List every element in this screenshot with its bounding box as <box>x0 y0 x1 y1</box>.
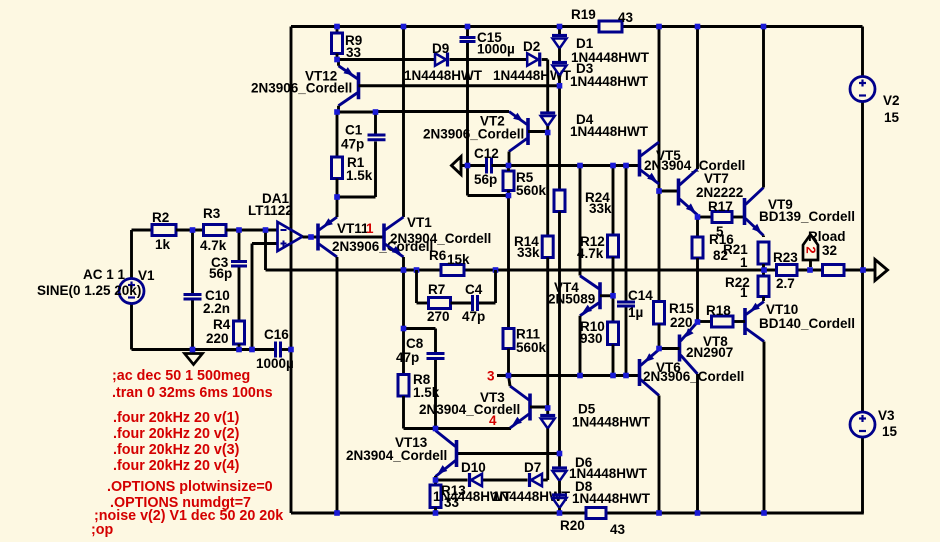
resistor R14 <box>542 236 553 258</box>
wire VT3 collector to bus3 <box>509 376 511 387</box>
svg-text:C12: C12 <box>474 146 499 161</box>
svg-text:;noise v(2) V1 dec 50 20 20k: ;noise v(2) V1 dec 50 20 20k <box>94 508 283 524</box>
wire D9 D2 row <box>337 58 436 61</box>
svg-text:.four 20kHz 20 v(2): .four 20kHz 20 v(2) <box>113 426 240 442</box>
svg-text:Rload: Rload <box>808 229 846 244</box>
wire bus net3 <box>497 374 640 377</box>
svg-text:R19: R19 <box>571 7 596 22</box>
capacitor C3 / resistor R4 branch <box>238 230 241 260</box>
svg-text:560k: 560k <box>516 340 547 355</box>
svg-text:4.7k: 4.7k <box>200 238 227 253</box>
svg-text:33k: 33k <box>517 245 540 260</box>
svg-text:1N4448HWT: 1N4448HWT <box>572 491 651 506</box>
capacitor C10 <box>191 230 194 293</box>
wire VT10 collector down <box>763 342 766 514</box>
svg-text:.OPTIONS plotwinsize=0: .OPTIONS plotwinsize=0 <box>107 479 273 495</box>
svg-text:BD139_Cordell: BD139_Cordell <box>759 209 855 224</box>
diode D3 <box>552 61 567 64</box>
wire R5 node <box>468 194 509 197</box>
capacitor C12 plates <box>485 158 488 174</box>
op-amp U1 DA1 LT1122 <box>278 222 303 251</box>
resistor R20 <box>586 508 606 519</box>
wire R1 leads <box>336 112 339 157</box>
transistor VT2 2N3906 <box>526 118 530 145</box>
wire output bus <box>266 269 442 272</box>
svg-text:2N3904_Cordell: 2N3904_Cordell <box>346 448 447 463</box>
svg-text:1000µ: 1000µ <box>256 356 294 371</box>
resistor R3 <box>204 225 227 236</box>
wire VT2 collector down <box>508 152 511 166</box>
resistor R9 <box>332 33 343 54</box>
wire VT3 base <box>530 406 548 409</box>
capacitor C15 <box>466 27 469 37</box>
resistor R8 <box>398 375 409 397</box>
voltage source V3 <box>850 412 875 437</box>
wire D5 chain <box>546 408 549 415</box>
svg-text:VT11: VT11 <box>337 221 369 236</box>
resistor R5 <box>503 171 514 191</box>
svg-text:1µ: 1µ <box>628 305 643 320</box>
svg-text:1: 1 <box>366 221 374 236</box>
resistor R24 <box>554 190 565 212</box>
wire VT6 collector down <box>658 396 661 514</box>
svg-text:2.2n: 2.2n <box>203 301 230 316</box>
resistor Rload <box>823 265 845 276</box>
wire R12 column <box>612 166 615 236</box>
svg-text:1.5k: 1.5k <box>346 168 373 183</box>
svg-text:C16: C16 <box>264 327 289 342</box>
transistor VT3 2N3904 <box>528 394 532 421</box>
svg-text:220: 220 <box>670 315 693 330</box>
svg-text:270: 270 <box>427 309 450 324</box>
svg-text:R23: R23 <box>773 250 798 265</box>
transistor VT5 2N3904 <box>638 150 642 177</box>
wire VT6 emitter join <box>658 349 661 350</box>
svg-text:.tran 0 32ms 6ms 100ns: .tran 0 32ms 6ms 100ns <box>112 385 273 401</box>
svg-text:2.7: 2.7 <box>776 276 795 291</box>
resistor R2 <box>152 225 176 236</box>
svg-text:15: 15 <box>882 424 898 439</box>
diode D9 <box>446 53 449 67</box>
wire C14 column <box>625 166 628 301</box>
wire VT8 base <box>659 347 680 350</box>
svg-text:43: 43 <box>610 522 626 537</box>
wire op-amp minus node jog <box>264 230 267 270</box>
wire VT1 collector to rail <box>402 27 405 218</box>
svg-text:33k: 33k <box>589 201 612 216</box>
wire R22 leads <box>762 270 765 276</box>
svg-text:D10: D10 <box>461 460 486 475</box>
svg-text:;ac dec 50 1 500meg: ;ac dec 50 1 500meg <box>112 368 250 384</box>
input port arrow <box>452 157 462 175</box>
svg-text:56p: 56p <box>474 172 497 187</box>
wire VT12 base <box>359 84 560 87</box>
svg-text:R17: R17 <box>708 199 733 214</box>
resistor R12 <box>608 235 619 257</box>
wire R18 to VT10 base <box>698 320 712 323</box>
wire VT12 collector node <box>337 111 376 114</box>
wire VT2 base <box>528 130 548 133</box>
resistor R16 <box>692 237 703 258</box>
svg-text:1000µ: 1000µ <box>477 42 515 57</box>
svg-text:15k: 15k <box>447 252 470 267</box>
capacitor C3 plates <box>231 260 247 263</box>
svg-text:32: 32 <box>822 243 837 258</box>
ground <box>192 350 195 354</box>
wire R9 top lead <box>336 27 339 34</box>
resistor R23 <box>777 265 798 276</box>
svg-text:;op: ;op <box>91 522 113 538</box>
svg-text:33: 33 <box>346 45 362 60</box>
wire VT5 collector column <box>658 27 661 192</box>
wire D2 to D4 <box>546 60 549 113</box>
svg-text:4: 4 <box>489 413 497 428</box>
svg-text:47p: 47p <box>341 137 364 152</box>
wire bottom negative rail <box>291 512 586 515</box>
wire VT2 emitter to VT12 collector <box>376 110 510 113</box>
resistor R19 <box>599 21 622 32</box>
wire op-amp plus input <box>252 242 278 245</box>
svg-text:R18: R18 <box>706 303 731 318</box>
svg-text:AC 1 1: AC 1 1 <box>83 267 126 282</box>
svg-text:1: 1 <box>740 285 748 300</box>
svg-text:2N3904_Cordell: 2N3904_Cordell <box>419 402 520 417</box>
svg-text:V3: V3 <box>878 408 895 423</box>
capacitor C1 plates <box>368 134 386 137</box>
wire R10 leads <box>612 296 615 322</box>
wire VT1 emitter down <box>402 257 405 329</box>
svg-text:1N4448HWT: 1N4448HWT <box>570 74 649 89</box>
transistor VT4 2N5089 <box>598 282 602 309</box>
svg-text:R20: R20 <box>560 518 585 533</box>
svg-text:VT7: VT7 <box>704 171 729 186</box>
svg-text:R3: R3 <box>203 206 221 221</box>
resistor R21 <box>758 242 769 264</box>
resistor R11 <box>503 329 514 349</box>
svg-text:C1: C1 <box>345 123 363 138</box>
svg-text:VT10: VT10 <box>766 302 798 317</box>
resistor R17 <box>712 212 732 223</box>
wire D7 D10 row <box>436 479 468 482</box>
svg-text:1N4448HWT: 1N4448HWT <box>404 68 483 83</box>
transistor VT11 2N3906 <box>316 224 320 251</box>
output port arrow <box>875 260 888 281</box>
svg-text:D2: D2 <box>523 39 540 54</box>
wire D1 D3 chain top <box>558 27 561 35</box>
svg-text:BD140_Cordell: BD140_Cordell <box>759 316 855 331</box>
diode D6 <box>552 466 567 469</box>
svg-text:560k: 560k <box>516 183 547 198</box>
capacitor C1 branch <box>374 112 377 134</box>
wire R2-R3 <box>176 229 204 232</box>
wire input loop left <box>132 229 153 232</box>
diode D8 <box>552 493 567 496</box>
wire bus165 <box>492 164 640 167</box>
svg-text:1: 1 <box>740 255 748 270</box>
wire R15 column <box>658 191 661 302</box>
transistor VT9 BD139 <box>743 198 747 225</box>
wire left frame vertical <box>290 27 293 514</box>
diode D4 <box>540 111 555 114</box>
svg-text:43: 43 <box>618 10 634 25</box>
svg-text:2N3906_Cordell: 2N3906_Cordell <box>643 369 744 384</box>
svg-text:V1: V1 <box>138 268 155 283</box>
wire VT5 emitter to VT7 base <box>659 190 679 193</box>
wire VT8 collector down <box>696 374 699 513</box>
diode D7 <box>528 473 531 487</box>
wire top positive rail <box>291 25 599 28</box>
svg-text:C14: C14 <box>628 288 653 303</box>
svg-text:2N2222: 2N2222 <box>696 185 743 200</box>
resistor R18 <box>712 316 734 327</box>
svg-text:C8: C8 <box>406 336 424 351</box>
transistor VT1 2N3904 <box>382 224 386 251</box>
capacitor C10 plates <box>184 293 202 296</box>
svg-text:VT1: VT1 <box>407 215 432 230</box>
wire R11 column <box>507 196 510 329</box>
transistor VT13 2N3904 <box>455 440 459 467</box>
svg-text:D7: D7 <box>524 460 541 475</box>
svg-text:47p: 47p <box>396 350 419 365</box>
diode D10 <box>468 473 471 487</box>
wire R8 leads <box>402 329 405 375</box>
wire VT11 collector down <box>336 257 339 513</box>
svg-text:1N4448HWT: 1N4448HWT <box>572 415 651 430</box>
svg-text:C4: C4 <box>465 282 483 297</box>
diode D5 <box>540 414 555 417</box>
svg-text:2N3904_Cordell: 2N3904_Cordell <box>390 231 491 246</box>
svg-text:2: 2 <box>804 246 819 253</box>
svg-text:.four 20kHz 20 v(4): .four 20kHz 20 v(4) <box>113 458 240 474</box>
svg-text:1N4448HWT: 1N4448HWT <box>570 124 649 139</box>
resistor R22 <box>758 276 769 297</box>
resistor R6 <box>441 265 464 276</box>
svg-text:R2: R2 <box>152 210 169 225</box>
wire VT4 base <box>600 294 613 297</box>
wire D4 to VT2 base node <box>546 126 549 133</box>
svg-text:D1: D1 <box>576 36 594 51</box>
svg-text:LT1122: LT1122 <box>248 203 293 218</box>
resistor R10 <box>608 322 619 345</box>
transistor VT12 2N3906 <box>357 72 361 99</box>
wire D1D3 column down <box>558 86 561 190</box>
resistor R7 <box>429 298 451 309</box>
svg-text:.four 20kHz 20 v(1): .four 20kHz 20 v(1) <box>113 410 240 426</box>
wire right vertical to V2/V3 <box>861 27 864 78</box>
wire VT13 emitter node <box>434 476 437 485</box>
svg-text:SINE(0 1.25 20k): SINE(0 1.25 20k) <box>37 283 141 298</box>
transistor VT6 2N3906 <box>638 359 642 386</box>
svg-text:15: 15 <box>884 110 900 125</box>
wire D6 D8 chain <box>558 454 561 468</box>
voltage source V2 <box>850 77 875 102</box>
wire VT13 base <box>457 452 560 455</box>
svg-text:3: 3 <box>487 369 495 384</box>
svg-text:1.5k: 1.5k <box>413 385 440 400</box>
junction dots <box>334 24 340 30</box>
resistor R13 <box>430 485 441 508</box>
capacitor C14 plates <box>617 301 635 304</box>
capacitor C4 plates <box>471 295 474 311</box>
voltage source V1 <box>119 279 144 304</box>
svg-text:R4: R4 <box>213 317 231 332</box>
svg-text:56p: 56p <box>209 266 232 281</box>
svg-text:.four 20kHz 20 v(3): .four 20kHz 20 v(3) <box>113 442 240 458</box>
wire op-amp output <box>303 236 385 239</box>
svg-text:1k: 1k <box>155 237 171 252</box>
diode D2 <box>538 53 541 67</box>
transistor VT8 2N2907 <box>678 335 682 362</box>
svg-text:33: 33 <box>444 495 460 510</box>
diode D1 <box>552 34 567 37</box>
svg-text:930: 930 <box>580 331 603 346</box>
wire R16 column <box>696 217 699 237</box>
svg-text:D9: D9 <box>432 41 449 56</box>
capacitor C16 plates <box>274 342 277 358</box>
wire R24 down to VT13 base node <box>558 212 561 454</box>
wire R14 column <box>546 133 549 237</box>
resistor R4 <box>234 321 245 344</box>
wire port to bus <box>461 164 487 167</box>
resistor R1 <box>332 157 343 179</box>
transistor VT7 2N2222 <box>677 179 681 206</box>
transistor VT10 BD140 <box>743 308 747 335</box>
svg-text:2N2907: 2N2907 <box>686 345 733 360</box>
wire R17 to VT9 <box>698 216 713 219</box>
wire R3 to op-amp <box>226 229 278 232</box>
svg-text:2N3906_Cordell: 2N3906_Cordell <box>423 127 524 142</box>
net flag 2 output port <box>803 235 818 261</box>
svg-text:2N3906_Cordell: 2N3906_Cordell <box>251 81 352 96</box>
svg-text:R15: R15 <box>669 301 694 316</box>
capacitor C15 plates <box>460 36 476 39</box>
wire R9 to VT12 <box>336 54 339 60</box>
svg-text:V2: V2 <box>883 93 900 108</box>
svg-text:47p: 47p <box>462 309 485 324</box>
wire R7C4 branch <box>415 270 418 303</box>
wire C8 branch top <box>404 327 436 330</box>
resistor R15 <box>654 302 665 325</box>
svg-text:220: 220 <box>206 331 229 346</box>
wire VT4 collector column <box>579 166 582 276</box>
svg-text:R7: R7 <box>428 282 445 297</box>
capacitor C8 plates <box>427 352 445 355</box>
svg-text:2N5089: 2N5089 <box>548 292 595 307</box>
